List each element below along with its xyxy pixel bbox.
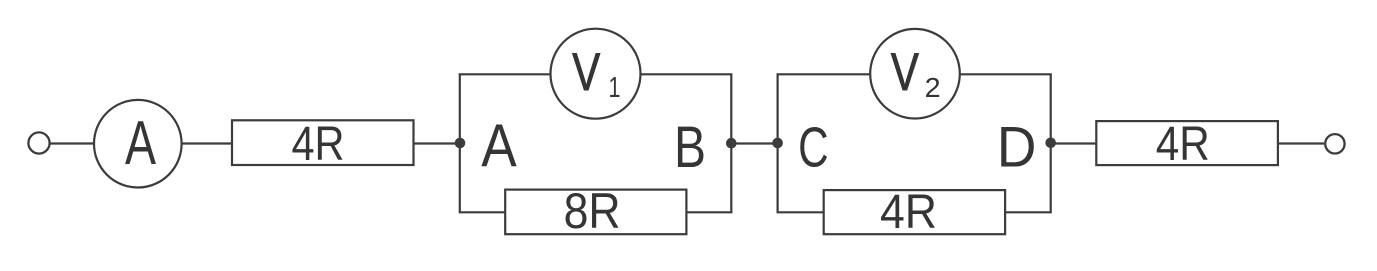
svg-text:8R: 8R: [564, 183, 621, 239]
svg-text:1: 1: [609, 72, 621, 104]
node C junction dot: [772, 138, 783, 149]
resistor 8R (parallel branch AB): [505, 183, 686, 239]
left terminal: [28, 132, 49, 153]
wire top rail of section CD: [777, 73, 1052, 75]
ammeter A1: [94, 100, 182, 188]
wire node D to resistor 4R right: [1051, 142, 1098, 144]
wire right branch vertical of section AB: [730, 74, 732, 212]
svg-text:A: A: [481, 112, 517, 179]
wire right branch vertical of section CD: [1050, 74, 1052, 212]
wire top rail of section AB: [459, 73, 733, 75]
wire left terminal to ammeter: [50, 142, 95, 144]
right terminal: [1325, 134, 1344, 153]
svg-text:A: A: [125, 108, 156, 178]
wire bottom rail of section AB: [459, 211, 733, 213]
svg-text:2: 2: [925, 72, 941, 103]
wire left branch vertical of section AB: [459, 74, 461, 212]
node A junction dot: [455, 138, 466, 149]
svg-text:D: D: [997, 115, 1037, 179]
voltmeter V1: [551, 29, 641, 119]
svg-text:B: B: [674, 115, 706, 180]
svg-text:4R: 4R: [292, 118, 345, 171]
svg-text:C: C: [798, 115, 829, 179]
wire resistor 4R right to right terminal: [1277, 142, 1324, 144]
wire resistor 4R to node A: [413, 142, 460, 144]
svg-text:V: V: [572, 43, 600, 102]
svg-text:4R: 4R: [1156, 118, 1210, 171]
svg-text:V: V: [891, 43, 919, 102]
svg-text:4R: 4R: [880, 186, 937, 239]
voltmeter V2: [870, 29, 960, 119]
node D junction dot: [1045, 138, 1056, 149]
resistor 4R (left series): [232, 118, 414, 171]
wire ammeter to resistor 4R: [181, 142, 232, 144]
resistor 4R (right series): [1096, 118, 1278, 171]
wire bottom rail of section CD: [777, 211, 1052, 213]
wire node B to node C: [731, 142, 778, 144]
node B junction dot: [726, 138, 737, 149]
resistor 4R (parallel branch CD): [824, 186, 1005, 239]
wire left branch vertical of section CD: [776, 74, 778, 212]
